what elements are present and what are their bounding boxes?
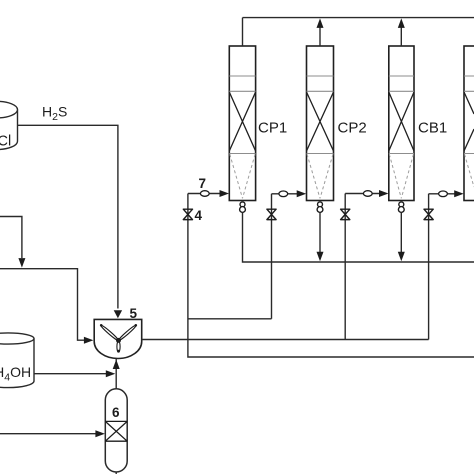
- wire overhead header (y=17.6): [243, 17, 474, 19]
- wire mixer outlet (y=339.5) to valve line V4d corner: [142, 339, 429, 341]
- arrow into riser: [106, 370, 116, 377]
- vessel V6 capsule: [105, 389, 127, 472]
- mixer M5 impeller blade down: [117, 341, 120, 352]
- wire feed line into column C2: [272, 193, 298, 195]
- wire bottoms header (y=262): [243, 212, 474, 262]
- wire left feed A (y=216.5): [0, 217, 22, 259]
- mixer M5 impeller blade right: [118, 324, 137, 341]
- valve V8b: [341, 209, 350, 219]
- arrow into mixer top: [114, 310, 122, 318]
- svg-text:4: 4: [195, 208, 203, 223]
- wire cross segment (y=318.8) between valve line 1 and 2: [188, 318, 272, 320]
- arrow into column C4: [454, 190, 464, 197]
- arrow down into bottoms header from C2: [317, 252, 324, 261]
- wire mixer bottom to vessel 6 top: [115, 359, 117, 389]
- mixer M5 vessel: [94, 319, 142, 358]
- arrow up into header from C3: [398, 18, 405, 28]
- wire feed line into column C3: [345, 193, 379, 195]
- arrow up into mixer bottom: [113, 360, 120, 370]
- arrow into column C1: [220, 190, 230, 197]
- wire column C2 riser: [319, 27, 321, 46]
- wire product line (y=357): [188, 340, 474, 358]
- wire column C3 riser: [400, 27, 402, 46]
- svg-text:6: 6: [112, 405, 120, 420]
- mixer M5 impeller blade tip dots: [100, 324, 103, 327]
- arrow into column C3: [379, 190, 389, 197]
- tank T2 (NH4OH, cut at left edge): [0, 333, 34, 388]
- wire column C1 riser: [242, 18, 244, 46]
- pump P3: [363, 191, 372, 197]
- column C4 (cut at right edge): [464, 46, 474, 201]
- pump P4: [439, 191, 448, 197]
- wire C3 bottoms drop: [400, 212, 402, 252]
- pump P2: [279, 191, 288, 197]
- wire valve line 2 (x=271.5): [271, 194, 273, 319]
- column C1 (CP1): [229, 46, 255, 201]
- valve V8c: [424, 209, 433, 219]
- wire valve line 4 (x=428.6): [428, 194, 430, 340]
- pump P1: [200, 191, 209, 197]
- wire valve line 1 (x=187.9): [187, 194, 189, 340]
- mixer M5 impeller hub: [116, 338, 121, 343]
- column C3 (CB1): [389, 46, 414, 201]
- svg-text:CB1: CB1: [418, 120, 447, 137]
- rotary feeder F2 below column C2: [317, 202, 323, 213]
- arrow into column C2: [297, 190, 307, 197]
- wire C2 bottoms drop: [319, 212, 321, 252]
- svg-text:HCl: HCl: [0, 134, 11, 150]
- wire feed into vessel V6: [0, 433, 96, 435]
- wire feed line into column C4: [429, 193, 455, 195]
- arrow down into bottoms header from C3: [398, 252, 405, 261]
- wire NH4OH outlet to vessel-6/mixer riser: [34, 373, 107, 375]
- arrow down onto line B: [18, 258, 25, 268]
- column C2 (CP2): [307, 46, 334, 201]
- rotary feeder F1 below column C1: [240, 202, 246, 213]
- valve V8a: [267, 209, 276, 219]
- arrow up into header from C2: [317, 18, 324, 28]
- wire H2S line: tank T1 to mixer 5 top: [18, 125, 118, 308]
- wire feed line into column C1: [188, 193, 221, 195]
- valve V4: [183, 209, 192, 219]
- arrow into vessel V6: [95, 430, 105, 437]
- tank T1 (HCl storage, cut at left edge): [0, 101, 18, 149]
- mixer M5 impeller blade left: [100, 324, 119, 341]
- wire left feed B (y=268.7) to mixer left: [0, 269, 84, 341]
- svg-text:7: 7: [199, 176, 207, 191]
- rotary feeder F3 below column C3: [398, 202, 404, 213]
- svg-text:CP1: CP1: [258, 120, 287, 137]
- arrow into mixer left: [84, 337, 94, 344]
- svg-text:5: 5: [130, 306, 138, 321]
- vessel V6 packing box: [105, 421, 127, 441]
- svg-text:CP2: CP2: [338, 120, 367, 137]
- wire vessel V6 bottom stub: [115, 472, 117, 474]
- wire valve line 3 (x=345.2): [344, 194, 346, 340]
